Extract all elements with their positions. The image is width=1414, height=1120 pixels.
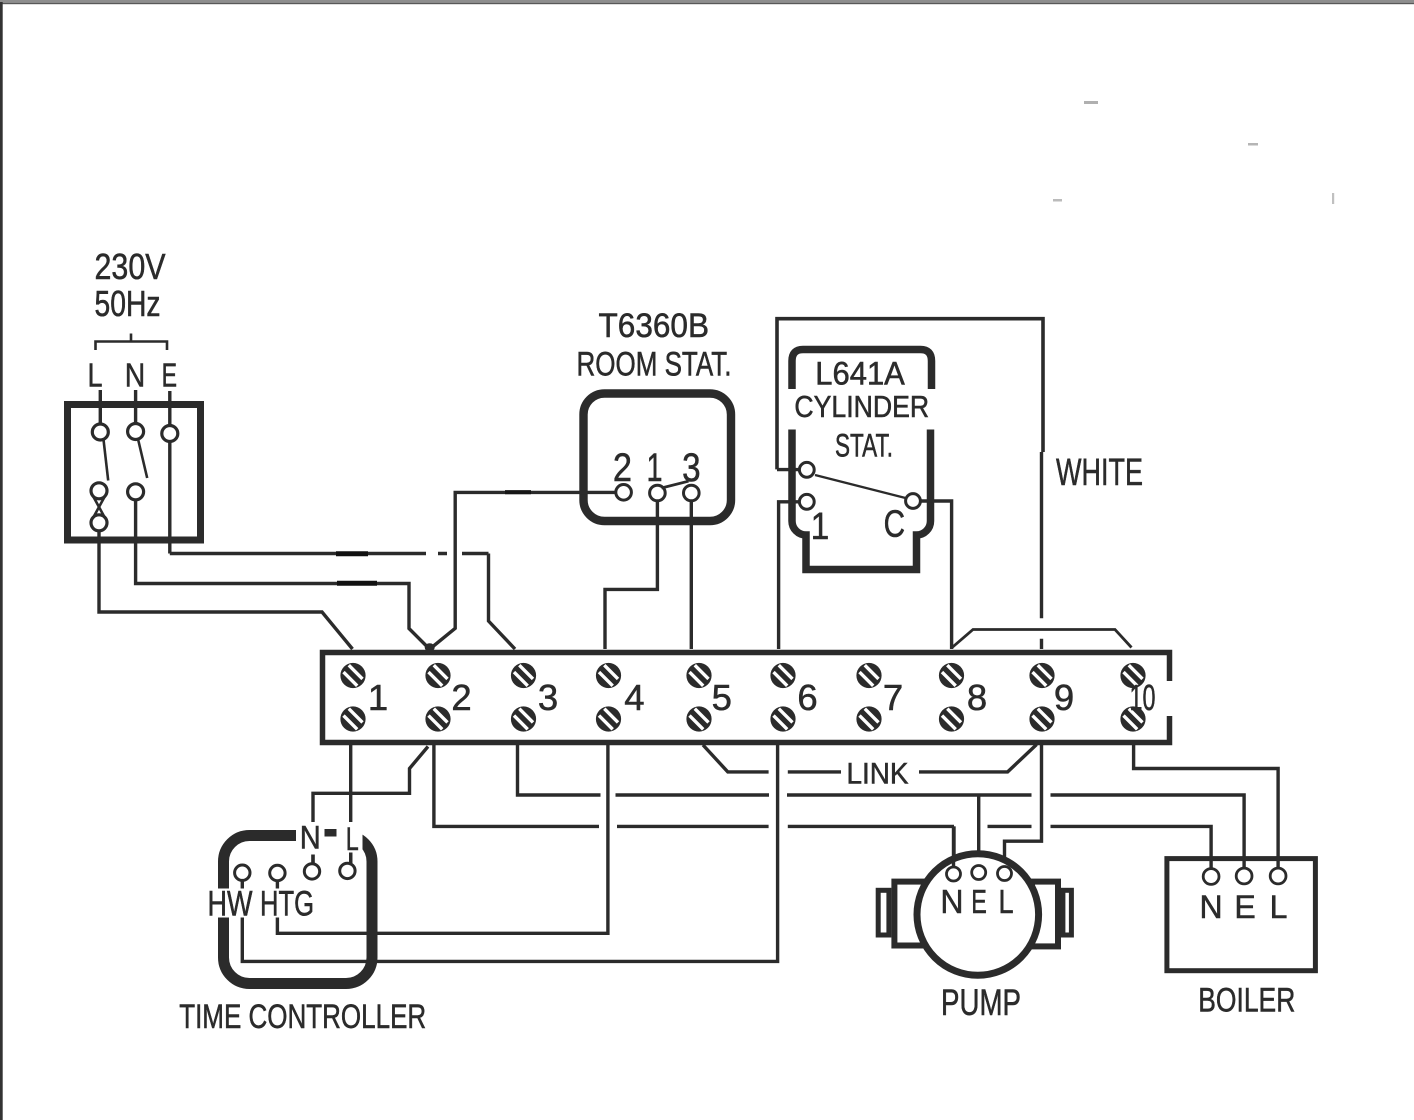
E upper contact — [162, 426, 178, 442]
svg-text:T6360B: T6360B — [599, 307, 710, 345]
E terminal stub — [168, 391, 171, 426]
svg-text:L: L — [88, 358, 103, 394]
terminal 10 number — [1130, 677, 1156, 718]
border dash between N and L — [325, 829, 337, 837]
terminal 2 screws — [425, 663, 450, 732]
svg-text:6: 6 — [797, 677, 817, 718]
wire loop terminal strip to cylinder stat (outer rectangle) — [777, 319, 1043, 470]
label PUMP — [941, 982, 1021, 1023]
terminal 2 number — [451, 677, 471, 718]
wire cylinder stat 1 to terminal 6 — [779, 502, 800, 649]
stray ink dash on room stat wire — [505, 490, 531, 494]
L lower contact — [91, 483, 107, 499]
svg-text:BOILER: BOILER — [1198, 981, 1295, 1019]
svg-text:3: 3 — [538, 677, 558, 718]
svg-text:ROOM STAT.: ROOM STAT. — [577, 346, 732, 384]
svg-text:CYLINDER: CYLINDER — [794, 390, 929, 424]
supply bracket — [96, 334, 168, 351]
room stat pin 1 label — [646, 445, 662, 490]
svg-text:L: L — [346, 821, 359, 856]
room stat T6360B body — [584, 394, 732, 522]
terminal strip box — [323, 653, 1170, 743]
boiler N E L labels — [1199, 889, 1287, 925]
svg-text:N: N — [300, 820, 321, 856]
pump left inner flange — [894, 882, 926, 946]
time controller terminal N — [304, 864, 319, 879]
room stat switch arm — [662, 481, 689, 488]
white gap in top border for N/L labels — [296, 822, 363, 852]
junction at terminal 2 — [425, 643, 435, 651]
svg-text:HTG: HTG — [260, 885, 314, 924]
link wire terminal 5 to terminal 9 — [703, 745, 1037, 772]
terminal 9 screws — [1029, 663, 1054, 732]
svg-text:9: 9 — [1054, 677, 1074, 718]
room stat label — [577, 307, 732, 384]
time controller terminal L — [340, 863, 355, 878]
label HW — [208, 885, 253, 924]
room stat terminal 2 — [616, 485, 632, 501]
wire terminal 9 to pump L — [1005, 745, 1042, 867]
svg-text:1: 1 — [811, 505, 829, 548]
wire N supply to terminal 2 — [136, 500, 430, 649]
pump left outer flange — [878, 890, 889, 935]
svg-text:7: 7 — [883, 677, 903, 718]
L fuse cross — [93, 496, 105, 518]
pump right inner flange — [1032, 882, 1058, 947]
wire terminal 6 to time controller HW — [242, 745, 777, 961]
cylinder stat body lower shell — [792, 430, 931, 570]
pump terminal E — [972, 866, 986, 880]
time controller box — [224, 836, 373, 984]
time controller terminal HW — [235, 865, 250, 880]
terminal 1 number — [368, 677, 388, 718]
neutral wire terminal 2 to pump N and boiler N — [434, 745, 1211, 869]
L terminal stub — [99, 390, 102, 424]
room stat terminal 1 — [650, 485, 666, 501]
terminal 4 screws — [596, 663, 621, 732]
svg-text:2: 2 — [451, 677, 471, 718]
terminal 3 number — [538, 677, 558, 718]
svg-text:E: E — [971, 884, 987, 921]
pump N E L labels — [940, 882, 1013, 921]
pump right outer flange — [1063, 890, 1072, 935]
svg-text:E: E — [162, 358, 177, 395]
svg-text:L: L — [998, 883, 1013, 920]
terminal 6 screws — [770, 663, 795, 732]
terminal 7 screws — [856, 663, 881, 732]
wire L supply to terminal 1 — [99, 531, 353, 649]
svg-text:230V: 230V — [95, 246, 166, 287]
label HTG — [260, 885, 314, 924]
pump N stub — [952, 826, 955, 867]
page left border — [0, 2, 3, 1120]
svg-text:TIME CONTROLLER: TIME CONTROLLER — [179, 998, 426, 1036]
L upper contact — [92, 424, 108, 440]
terminal label N — [125, 356, 145, 394]
svg-text:2: 2 — [613, 445, 632, 490]
cylinder stat contact right (C) — [906, 494, 921, 509]
boiler box — [1167, 859, 1316, 971]
terminal 8 number — [967, 677, 987, 718]
N terminal stub — [134, 390, 137, 424]
terminal label E — [162, 358, 177, 395]
room stat pin 2 label — [613, 445, 632, 490]
svg-text:HW: HW — [208, 885, 253, 924]
time controller terminal HTG — [270, 865, 285, 880]
svg-text:N: N — [940, 882, 963, 920]
label WHITE — [1056, 452, 1143, 494]
N lower contact — [128, 484, 144, 500]
cylinder stat labels — [794, 356, 929, 464]
terminal 3 screws — [511, 663, 536, 732]
pump terminal N — [947, 867, 961, 881]
wire terminal 10 to boiler L — [1134, 745, 1279, 868]
boiler terminal E — [1236, 868, 1252, 884]
boiler terminal L — [1270, 868, 1286, 884]
svg-text:WHITE: WHITE — [1056, 452, 1143, 494]
terminal 8 screws — [939, 663, 964, 732]
pin label 1 — [811, 505, 829, 548]
room stat terminal 3 — [684, 485, 700, 501]
pump terminal L — [998, 867, 1012, 881]
svg-text:STAT.: STAT. — [835, 428, 893, 464]
label LINK — [847, 757, 909, 790]
pin label C — [884, 503, 905, 545]
faint scan smudges — [1053, 101, 1334, 204]
earth wire terminal 3 to pump E and boiler E — [518, 745, 1245, 868]
label BOILER — [1198, 981, 1295, 1019]
wire room stat 1 to terminal 4 — [605, 501, 657, 649]
N upper contact — [128, 424, 144, 440]
link wire terminal 8 to terminal 10 (trapezoid) — [952, 630, 1132, 649]
terminal 5 screws — [686, 663, 711, 732]
wire terminal 2 to time controller N — [313, 747, 428, 865]
svg-text:E: E — [1234, 889, 1255, 925]
svg-text:8: 8 — [967, 677, 987, 718]
L switch arm — [104, 440, 109, 481]
wire terminal 4 to time controller HTG — [277, 745, 608, 933]
terminal 9 number — [1054, 677, 1074, 718]
terminal 7 number — [883, 677, 903, 718]
wire room stat 2 to terminal 2 — [430, 492, 616, 649]
terminal 5 number — [712, 677, 732, 718]
supply box (double pole switch + fuse) — [68, 405, 201, 541]
L fuse lower circle — [91, 515, 107, 531]
label L — [346, 821, 359, 856]
svg-text:L: L — [1270, 889, 1288, 925]
terminal 4 number — [624, 677, 644, 718]
cylinder stat body top cap — [792, 350, 932, 390]
white gap in left border for HW label — [213, 889, 232, 918]
label TIME CONTROLLER — [179, 998, 426, 1036]
svg-text:1: 1 — [368, 677, 388, 718]
page top border — [0, 0, 1414, 3]
N wire stub through label gap — [313, 853, 351, 865]
wire into upper left contact — [777, 468, 799, 471]
label N — [300, 820, 321, 856]
boiler terminal N — [1203, 869, 1219, 885]
room stat pin 3 label — [682, 445, 700, 490]
wire E supply to terminal 3 — [170, 442, 515, 650]
cylinder stat contact lower left (1) — [799, 494, 814, 509]
svg-text:50Hz: 50Hz — [95, 283, 161, 324]
N switch arm — [138, 439, 147, 478]
cylinder stat switch arm — [815, 475, 906, 498]
wire room stat 3 to terminal 5 — [690, 501, 693, 649]
terminal label L — [88, 358, 103, 394]
terminal 6 number — [797, 677, 817, 718]
svg-text:N: N — [1199, 889, 1222, 925]
svg-text:C: C — [884, 503, 905, 545]
wire cylinder stat C to terminal 8 — [920, 501, 951, 649]
svg-text:L641A: L641A — [815, 356, 905, 392]
svg-text:N: N — [125, 356, 145, 394]
pump body circle — [917, 854, 1039, 976]
terminal 10 screws — [1120, 663, 1145, 732]
svg-text:4: 4 — [624, 677, 644, 718]
svg-text:10: 10 — [1130, 677, 1156, 718]
label 230V 50Hz supply — [95, 246, 166, 324]
svg-text:1: 1 — [646, 445, 662, 490]
bold ink overdraw on N wire — [337, 581, 377, 586]
svg-text:PUMP: PUMP — [941, 982, 1021, 1023]
white wire down to terminal 9 — [1040, 452, 1043, 649]
cylinder stat contact upper left — [799, 462, 814, 477]
bold ink overdraw on E wire — [336, 551, 368, 556]
svg-text:5: 5 — [712, 677, 732, 718]
terminal 1 screws — [340, 663, 365, 732]
wire terminal 1 to time controller L — [349, 745, 352, 864]
svg-text:LINK: LINK — [847, 757, 909, 790]
